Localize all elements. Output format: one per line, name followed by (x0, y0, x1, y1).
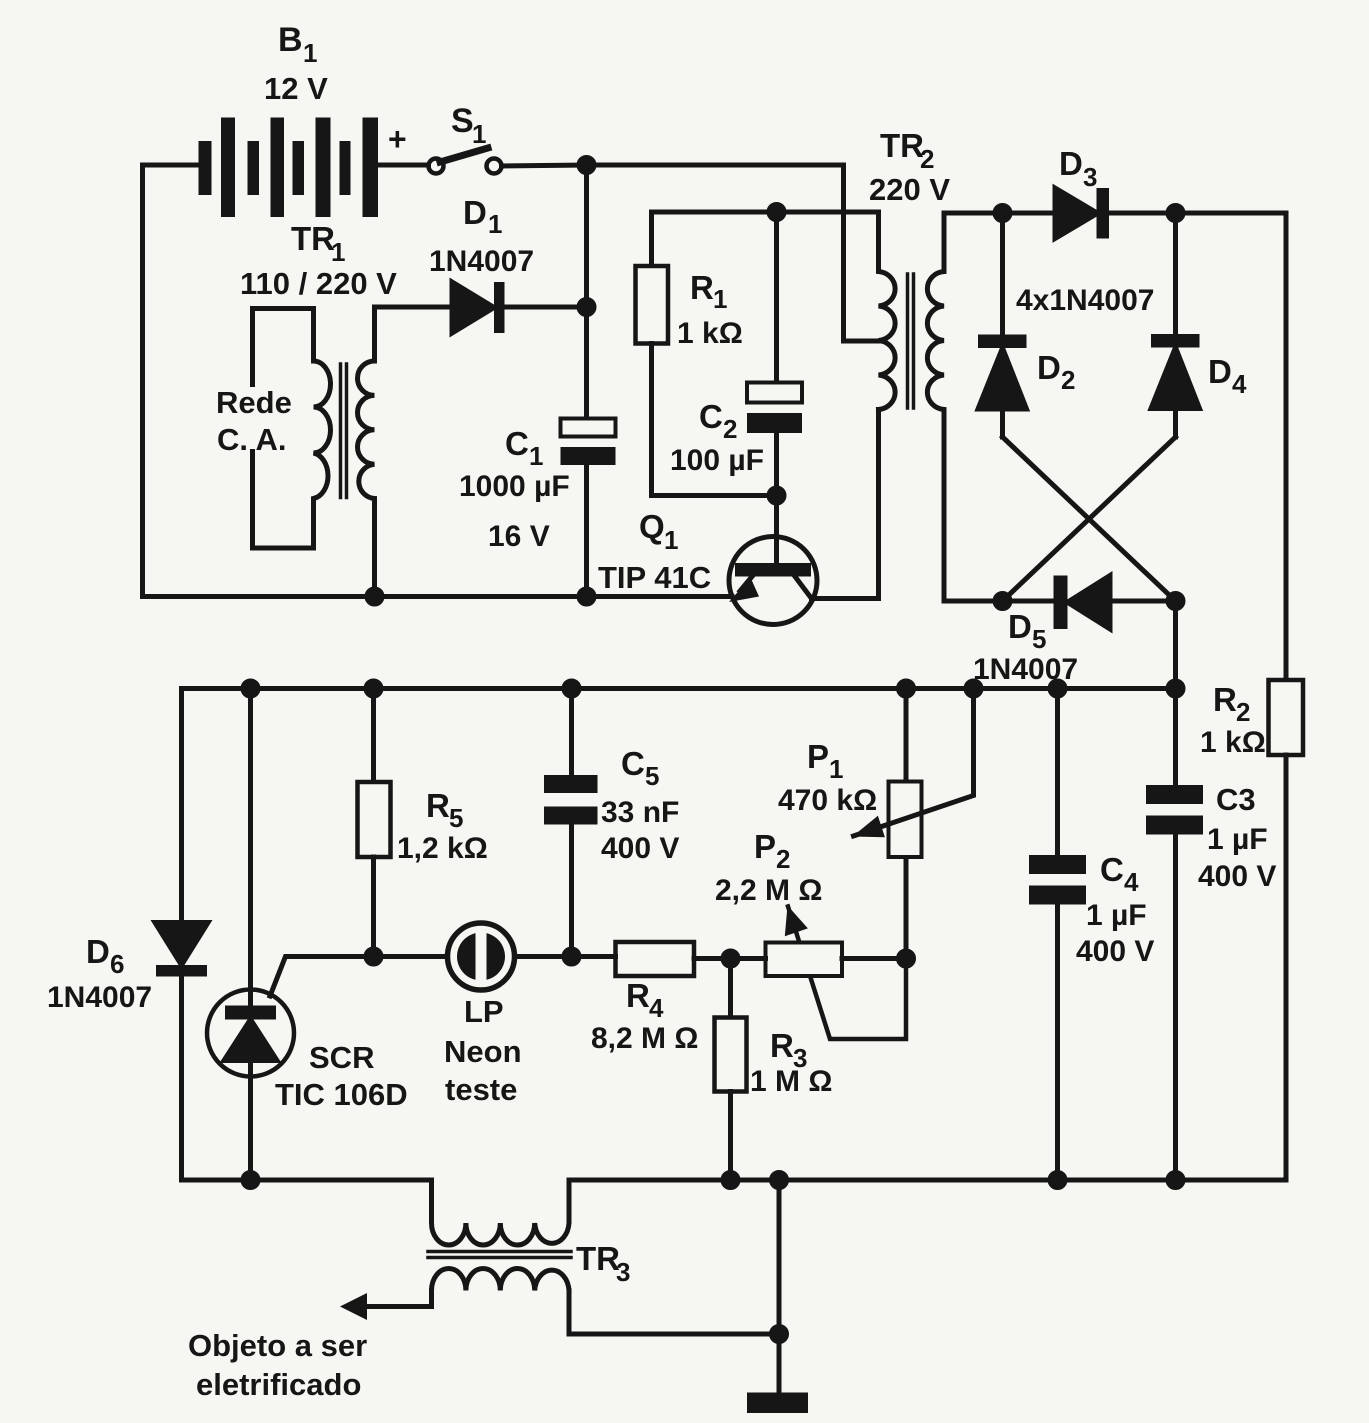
svg-text:D: D (1008, 608, 1032, 645)
TR3 secondary winding (432, 1269, 570, 1291)
ground (747, 1393, 808, 1414)
switch S1 (429, 159, 444, 174)
TR1 primary open terminals (Rede C.A.) (253, 309, 314, 385)
svg-text:1 µF: 1 µF (1086, 899, 1147, 932)
svg-text:1N4007: 1N4007 (47, 981, 152, 1014)
svg-text:1: 1 (488, 209, 502, 239)
svg-text:TR: TR (576, 1240, 620, 1277)
svg-text:TR: TR (291, 220, 335, 257)
svg-text:P: P (807, 738, 829, 775)
svg-text:4x1N4007: 4x1N4007 (1016, 284, 1154, 317)
svg-text:TR: TR (880, 127, 924, 164)
potentiometer P1 470k (904, 689, 909, 959)
svg-text:C: C (699, 398, 723, 435)
svg-text:C: C (1100, 851, 1124, 888)
wire: top rail to TR2 feed corner, down to center tap (587, 165, 879, 341)
node: C3 bottom (1168, 1173, 1183, 1188)
svg-text:teste: teste (445, 1072, 517, 1107)
node: D4/D3 junction (1168, 206, 1183, 221)
node: C4 bottom (1050, 1173, 1065, 1188)
node: R3 bottom (723, 1173, 738, 1188)
svg-text:D: D (1037, 349, 1061, 386)
svg-text:SCR: SCR (309, 1040, 374, 1075)
wire: D2 anode diagonal to D5 right node (1003, 437, 1176, 601)
svg-text:5: 5 (449, 803, 463, 833)
svg-text:4: 4 (649, 993, 664, 1023)
node: SCR anode bottom (243, 1173, 258, 1188)
svg-text:2: 2 (1061, 365, 1075, 395)
capacitor C3 1uF 400V (1146, 785, 1203, 804)
battery B1 (199, 118, 379, 218)
node: R5 top (366, 681, 381, 696)
node: P1 top (899, 681, 914, 696)
wire: R1 bottom to C2 bottom junction (652, 493, 777, 498)
svg-text:S: S (451, 102, 474, 140)
svg-text:3: 3 (1083, 162, 1097, 192)
node: C5 top (564, 681, 579, 696)
lower horizontal rail (182, 686, 1176, 691)
svg-text:470 kΩ: 470 kΩ (778, 784, 877, 817)
svg-text:Neon: Neon (444, 1034, 522, 1069)
svg-text:R: R (626, 977, 650, 1014)
wire P2 left to R4 junction (731, 956, 766, 961)
svg-text:C3: C3 (1216, 782, 1256, 817)
potentiometer P2 2.2M wiper line (under body) (788, 907, 906, 1040)
TR2 secondary winding (927, 213, 944, 601)
svg-text:C: C (621, 745, 645, 782)
node: C5 bottom (564, 949, 579, 964)
svg-text:D: D (1208, 353, 1232, 390)
svg-text:LP: LP (464, 994, 504, 1029)
svg-text:1 kΩ: 1 kΩ (1200, 726, 1266, 759)
wire P2 right terminal (842, 956, 906, 961)
wire to ground (777, 1180, 782, 1394)
node: C3 top (1168, 681, 1183, 696)
capacitor C4 1uF 400V (1055, 689, 1060, 1181)
svg-text:3: 3 (616, 1257, 630, 1287)
svg-text:eletrificado: eletrificado (196, 1367, 361, 1402)
wire: D5 right node down to lower rail (1173, 601, 1178, 689)
svg-text:Q: Q (639, 508, 665, 545)
capacitor C1 1000uF (561, 419, 616, 437)
svg-text:Objeto a ser: Objeto a ser (188, 1328, 367, 1363)
svg-text:1,2 kΩ: 1,2 kΩ (397, 832, 488, 865)
svg-text:6: 6 (110, 949, 124, 979)
svg-text:1000 µF: 1000 µF (459, 470, 570, 503)
resistor R5 1.2k (371, 689, 376, 783)
node: D2/D3 anode junction (995, 206, 1010, 221)
svg-text:D: D (1059, 145, 1083, 182)
wire: TR2 secondary top to D2/D3 (944, 211, 1055, 216)
svg-text:220 V: 220 V (869, 172, 950, 207)
diode D3 (1055, 188, 1098, 239)
node: C1 bottom on rail (579, 589, 594, 604)
svg-text:100 µF: 100 µF (670, 444, 764, 477)
svg-text:400 V: 400 V (1198, 860, 1276, 893)
svg-text:D: D (86, 933, 110, 970)
node: D5 right junction (1168, 594, 1183, 609)
wire: primary top corner from R1 rail (876, 212, 881, 214)
svg-text:B: B (278, 21, 303, 59)
svg-text:C. A.: C. A. (217, 422, 286, 457)
node: P2 right / P1 bottom junction (899, 951, 914, 966)
resistor R4 8.2M (616, 942, 695, 976)
svg-text:C: C (505, 425, 529, 462)
node: ground branch top (772, 1173, 787, 1188)
svg-text:4: 4 (1232, 369, 1247, 399)
diode D5 1N4007 (1054, 576, 1068, 630)
svg-text:P: P (754, 828, 776, 865)
node: P1 wiper top (966, 681, 981, 696)
svg-text:1 µF: 1 µF (1207, 823, 1268, 856)
wire: R1/C2 top rail to TR2 primary top (652, 210, 879, 215)
SCR TIC106D (248, 689, 253, 1181)
TR3 secondary right terminal (569, 1291, 779, 1335)
wire: vertical junction to C1 (584, 165, 589, 419)
svg-text:1: 1 (829, 754, 843, 784)
svg-text:2,2 M Ω: 2,2 M Ω (715, 874, 822, 907)
node: D1 cathode junction (579, 300, 594, 315)
TR3 core (428, 1252, 571, 1258)
svg-text:2: 2 (920, 144, 934, 174)
TR3 primary winding (432, 1180, 570, 1245)
wire switch to junction (502, 165, 587, 166)
diode D4 (1173, 213, 1178, 334)
svg-text:1: 1 (331, 237, 345, 267)
svg-text:12 V: 12 V (264, 71, 328, 106)
svg-text:1: 1 (713, 284, 727, 314)
svg-text:5: 5 (1032, 624, 1046, 654)
capacitor C5 33nF (569, 689, 574, 957)
svg-text:1: 1 (664, 525, 678, 555)
svg-text:1: 1 (529, 441, 543, 471)
resistor R1 1k (649, 212, 654, 266)
wire TR1 secondary top to D1 (375, 305, 453, 310)
TR1 primary winding (314, 309, 331, 549)
svg-text:2: 2 (723, 414, 737, 444)
svg-text:+: + (388, 121, 407, 157)
svg-text:33 nF: 33 nF (601, 796, 679, 829)
node: C2 bottom junction (769, 488, 784, 503)
svg-text:1N4007: 1N4007 (973, 653, 1078, 686)
diode D1 1N4007 (452, 282, 494, 333)
svg-text:8,2 M Ω: 8,2 M Ω (591, 1022, 698, 1055)
TR2 core (908, 274, 914, 408)
node: R5 bottom / gate junction (366, 949, 381, 964)
wire: D4 anode diagonal to D5 left node (1003, 437, 1176, 601)
resistor R2 1k (1269, 680, 1304, 755)
svg-text:1 M Ω: 1 M Ω (750, 1065, 832, 1098)
TR1 secondary winding (358, 307, 375, 597)
node: C2 top junction (769, 205, 784, 220)
svg-text:R: R (770, 1027, 794, 1064)
TR1 core (341, 364, 347, 498)
potentiometer P2 body (766, 943, 843, 977)
wire: Q1 collector to TR2 primary bottom (812, 410, 879, 599)
svg-text:2: 2 (1236, 697, 1250, 727)
svg-text:D: D (463, 194, 487, 231)
TR2 primary winding (879, 214, 896, 410)
transistor Q1 TIP41C (735, 563, 811, 577)
svg-text:4: 4 (1124, 867, 1139, 897)
node: SCR top (243, 681, 258, 696)
svg-text:2: 2 (776, 844, 790, 874)
node: ground junction (772, 1327, 787, 1342)
svg-text:Rede: Rede (216, 385, 292, 420)
resistor R3 1M (728, 959, 733, 1018)
svg-text:1: 1 (303, 38, 317, 68)
svg-text:400 V: 400 V (1076, 935, 1154, 968)
wire: D3 cathode to right rail corner (1109, 213, 1286, 680)
TR3 secondary left terminal with arrow (367, 1291, 432, 1307)
svg-text:110 / 220 V: 110 / 220 V (240, 266, 397, 301)
diode D6 1N4007 (179, 689, 184, 923)
svg-text:R: R (1213, 681, 1237, 718)
svg-text:1: 1 (472, 119, 486, 149)
svg-text:1 kΩ: 1 kΩ (677, 317, 743, 350)
wire: TR2 secondary bottom to D5 (944, 599, 1054, 604)
svg-text:R: R (426, 787, 450, 824)
neon lamp LP (374, 954, 616, 959)
node: C4 top (1050, 681, 1065, 696)
node: top rail junction above C1 (579, 158, 594, 173)
svg-text:400 V: 400 V (601, 832, 679, 865)
node: D5 left junction (995, 594, 1010, 609)
svg-text:R: R (690, 269, 714, 306)
diode D2 (1000, 213, 1005, 335)
svg-text:TIP 41C: TIP 41C (598, 560, 711, 595)
bottom rail (182, 1178, 432, 1183)
svg-text:5: 5 (645, 761, 659, 791)
SCR gate wire (270, 957, 374, 997)
wire: battery left to outer left rail down to bottom rail of top section (143, 165, 733, 597)
node: TR1 secondary bottom on rail (367, 589, 382, 604)
svg-text:16 V: 16 V (488, 520, 550, 553)
wire battery to switch (378, 163, 429, 168)
capacitor C2 100uF (774, 212, 779, 383)
svg-text:1N4007: 1N4007 (429, 245, 534, 278)
node: R4/P2/R3 junction (723, 951, 738, 966)
svg-text:TIC 106D: TIC 106D (275, 1077, 408, 1112)
